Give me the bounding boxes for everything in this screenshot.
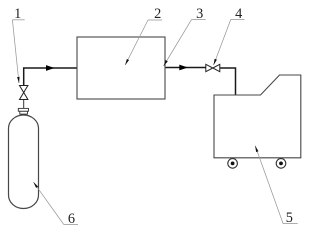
svg-text:2: 2 bbox=[154, 6, 161, 22]
svg-text:6: 6 bbox=[68, 211, 75, 227]
svg-text:5: 5 bbox=[286, 210, 293, 226]
svg-text:1: 1 bbox=[14, 6, 21, 22]
svg-text:4: 4 bbox=[235, 6, 242, 22]
svg-text:3: 3 bbox=[196, 6, 203, 22]
